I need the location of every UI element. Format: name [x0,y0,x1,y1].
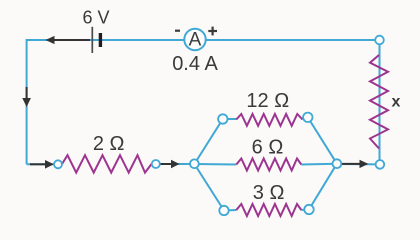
node x top [375,36,384,45]
node split [190,159,199,168]
resistor R2 12-ohm zigzag [236,114,302,126]
wire 3-ohm right lead [301,209,309,212]
node 3-ohm right [304,205,313,214]
node 12-ohm left [218,114,227,123]
ammeter minus terminal [175,30,180,32]
wire split to 6-ohm [194,163,236,166]
svg-text:x: x [392,94,401,111]
svg-text:3 Ω: 3 Ω [253,182,285,204]
svg-text:A: A [189,29,202,50]
node x bottom [376,160,385,169]
wire merge node to x bottom node [337,163,380,165]
wire 12-ohm right lead [303,117,308,119]
wire 12-ohm left lead [223,118,237,120]
wire split to 3-ohm branch [194,164,224,211]
ammeter plus terminal [208,27,217,36]
wire 12-ohm to merge node [308,117,337,163]
wire 3-ohm to merge node [309,164,337,210]
svg-text:2 Ω: 2 Ω [93,133,125,155]
resistor R1 2-ohm zigzag [62,155,152,172]
battery B1 long plate [91,27,93,53]
arrow current left (pointing down) [22,87,31,107]
wire 6-ohm to merge node [301,163,337,166]
arrow into split node (pointing right) [160,160,180,169]
arrow current top (pointing left) [46,36,91,44]
wire 2-ohm to split node [156,163,195,165]
resistor Rx vertical zigzag [370,55,388,149]
svg-text:12 Ω: 12 Ω [246,90,289,112]
battery B1 short thick plate [99,33,102,47]
node right of 2-ohm [152,160,160,168]
wire top [27,40,380,164]
node after bottom-left arrow [54,160,62,168]
resistor R3 6-ohm zigzag [236,159,301,171]
ammeter A1 [184,29,205,50]
node 12-ohm right [303,113,312,122]
svg-text:6 Ω: 6 Ω [252,137,284,159]
wire x column [379,40,381,164]
wire split to 12-ohm branch [194,119,222,164]
resistor R4 3-ohm zigzag [236,204,301,216]
svg-text:0.4 A: 0.4 A [172,53,218,75]
wire bottom-left to 2-ohm [27,163,58,165]
wire 3-ohm left lead [224,209,236,212]
node 3-ohm left [219,206,228,215]
svg-text:6 V: 6 V [82,8,109,28]
node merge [333,159,342,168]
arrow merge to x (pointing right) [342,160,368,168]
arrow into 2-ohm (pointing right) [30,160,54,169]
